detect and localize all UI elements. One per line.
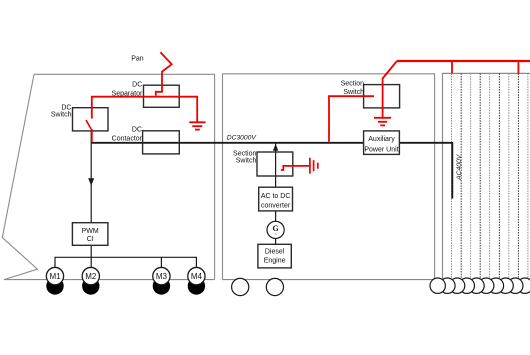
wire: converter column car2 [275, 144, 277, 188]
wire: red drop 2 [517, 61, 519, 74]
motor M3 [153, 267, 170, 284]
AC to DC converter box [259, 187, 293, 211]
svg-text:Auxiliary: Auxiliary [368, 136, 395, 143]
wire: red roof line car1 [92, 97, 197, 122]
car 1 body outline [2, 74, 214, 279]
car 2 wheels [232, 278, 284, 295]
svg-text:Engine: Engine [264, 258, 286, 265]
svg-text:Power Unit: Power Unit [364, 147, 398, 154]
svg-text:AC to DC: AC to DC [261, 193, 291, 200]
svg-text:DC3000V: DC3000V [227, 135, 257, 142]
motor M4 [188, 267, 205, 284]
svg-text:Switch: Switch [343, 89, 364, 96]
motor labels [49, 272, 202, 281]
motor M1 [46, 267, 63, 284]
section switch hook [281, 166, 310, 170]
wire: traction column car1 [90, 131, 92, 223]
car 2 body outline [223, 74, 530, 280]
motor wheel M1 [46, 277, 63, 294]
svg-text:DC: DC [132, 81, 142, 88]
wire: main DC bus [92, 143, 453, 199]
DC contactor box [143, 131, 180, 154]
svg-text:PWM: PWM [82, 228, 99, 235]
wire: converter to generator [275, 211, 277, 221]
svg-text:DC: DC [61, 105, 71, 112]
svg-text:DC: DC [132, 126, 142, 133]
DC switch box [73, 108, 109, 131]
car 3 dotted partition lines [452, 73, 528, 279]
pantograph [156, 52, 172, 95]
wire: red catenary drop through section switch [383, 62, 397, 118]
svg-text:Section: Section [341, 80, 364, 87]
wire: M2 drop [90, 257, 92, 267]
svg-text:Pan: Pan [131, 56, 144, 63]
diesel engine box [258, 244, 291, 268]
wire: red drop to bus [91, 129, 93, 143]
svg-text:M3: M3 [156, 272, 168, 281]
svg-text:M2: M2 [85, 272, 97, 281]
DC separator box [144, 85, 180, 107]
svg-text:Separator: Separator [112, 90, 143, 97]
section switch box lower [257, 152, 293, 176]
svg-text:Diesel: Diesel [265, 249, 285, 256]
arrow down on traction column [88, 178, 94, 186]
svg-text:M1: M1 [49, 272, 61, 281]
section switch box upper [364, 85, 400, 108]
motor wheel M3 [153, 277, 170, 294]
svg-text:AC400V: AC400V [456, 153, 463, 181]
wire: red overhead line [397, 60, 530, 62]
svg-text:converter: converter [261, 203, 291, 210]
svg-text:Switch: Switch [236, 157, 257, 164]
svg-text:Contactor: Contactor [112, 136, 143, 143]
wire: generator to diesel engine [275, 239, 277, 245]
motor M2 [82, 267, 99, 284]
DC switch blade [86, 120, 91, 129]
svg-text:Switch: Switch [51, 112, 72, 119]
arrow up on converter column [273, 144, 278, 151]
wire: motor distribution line [55, 257, 196, 267]
wire: PWM to distribution [90, 245, 92, 257]
svg-text:CI: CI [87, 236, 94, 243]
motor wheel M4 [188, 277, 205, 294]
car 3 wheels [430, 278, 530, 293]
generator G circle [267, 221, 284, 238]
svg-text:~: ~ [274, 233, 277, 238]
wire: M3 drop [160, 257, 162, 267]
ground under separator [189, 122, 205, 129]
svg-text:M4: M4 [191, 272, 203, 281]
ground under section switch upper [374, 118, 391, 126]
wire: red drop 1 [451, 61, 453, 74]
wire: red link bus to section switch upper [329, 96, 374, 142]
PWM CI box [72, 223, 108, 246]
motor wheel M2 [82, 277, 99, 294]
ground sideways at section switch [310, 158, 318, 174]
auxiliary power unit box [364, 131, 400, 155]
car 3 body outline [443, 73, 530, 279]
